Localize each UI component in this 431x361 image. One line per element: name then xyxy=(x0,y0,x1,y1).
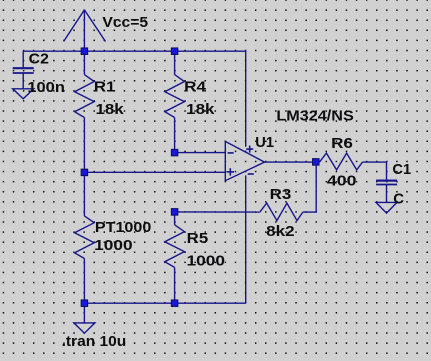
wire op-amp output xyxy=(265,161,317,163)
svg-text:.tran 10u: .tran 10u xyxy=(62,333,127,350)
svg-text:PT1000: PT1000 xyxy=(95,219,151,236)
node R4/minus-input xyxy=(171,149,178,156)
svg-text:R3: R3 xyxy=(270,186,292,203)
node rail/R4 junction xyxy=(171,48,178,55)
svg-text:Vcc=5: Vcc=5 xyxy=(102,14,148,31)
wire R6 to C1 xyxy=(363,162,387,180)
svg-text:R6: R6 xyxy=(331,135,353,152)
wire top rail xyxy=(23,51,246,147)
wire R3 left xyxy=(175,211,260,213)
svg-text:400: 400 xyxy=(327,173,357,190)
svg-text:R4: R4 xyxy=(184,79,207,96)
node output/R6/R3 junction xyxy=(313,159,320,166)
node bottom-left junction xyxy=(81,300,88,307)
svg-text:R5: R5 xyxy=(187,230,209,247)
wire ground stub xyxy=(83,303,85,323)
svg-text:R1: R1 xyxy=(94,79,116,96)
wire op-amp V- to ground rail xyxy=(245,175,247,303)
svg-text:100n: 100n xyxy=(27,79,65,96)
ground (C1) xyxy=(376,202,397,213)
ground (bottom) xyxy=(74,323,95,333)
resistor PT1000 xyxy=(75,172,95,303)
node Vcc/R1 junction xyxy=(81,48,88,55)
svg-text:C1: C1 xyxy=(392,161,411,178)
resistor R4 xyxy=(165,51,185,152)
svg-text:LM324/NS: LM324/NS xyxy=(276,108,353,125)
svg-text:8k2: 8k2 xyxy=(266,223,295,240)
resistor R6 xyxy=(320,153,363,170)
svg-text:U1: U1 xyxy=(255,134,274,151)
svg-text:1000: 1000 xyxy=(94,237,133,254)
Vcc symbol arrow xyxy=(64,10,106,52)
svg-text:18k: 18k xyxy=(186,101,215,118)
node bottom R5 junction xyxy=(171,300,178,307)
resistor R1 xyxy=(75,51,95,172)
wire inverting input xyxy=(175,152,226,154)
wire bottom rail xyxy=(84,302,245,304)
node R5/R3 junction xyxy=(171,209,178,216)
svg-text:C: C xyxy=(393,190,404,207)
capacitor C2 xyxy=(13,51,34,89)
svg-text:18k: 18k xyxy=(96,101,125,118)
wire R3 right riser xyxy=(303,162,316,212)
wire noninverting input xyxy=(84,171,225,173)
node R1/PT1000/plus-input xyxy=(81,169,88,176)
resistor R5 xyxy=(165,212,185,303)
op-amp U1 xyxy=(225,141,264,180)
ground (C2) xyxy=(13,89,34,99)
capacitor C1 xyxy=(376,181,397,203)
resistor R3 xyxy=(260,203,303,221)
svg-text:1000: 1000 xyxy=(187,253,226,270)
svg-text:C2: C2 xyxy=(29,51,49,68)
